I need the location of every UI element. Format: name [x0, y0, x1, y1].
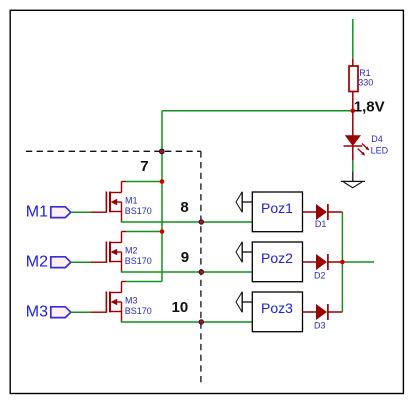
svg-text:BS170: BS170: [125, 256, 152, 266]
svg-text:M3: M3: [26, 304, 48, 321]
diode D2: [303, 254, 343, 280]
svg-text:BS170: BS170: [125, 206, 152, 216]
wire: M3 drain horizontal (green): [122, 281, 163, 283]
svg-text:M2: M2: [125, 245, 138, 255]
transistor M2: [91, 232, 152, 272]
junction dot row 10 on dashed line: [199, 319, 204, 324]
svg-text:Poz2: Poz2: [261, 250, 293, 266]
box Poz2 arrow pin: [236, 242, 252, 262]
box Poz2: [252, 242, 302, 282]
transistor M3: [91, 282, 152, 322]
junction dot row 8 on dashed line: [199, 219, 204, 224]
svg-text:M2: M2: [26, 254, 48, 271]
LED D4: [344, 134, 389, 155]
dashed region vertical line: [200, 151, 202, 383]
svg-text:330: 330: [358, 77, 373, 87]
wire: supply rail vertical (green): [161, 111, 163, 282]
box Poz1: [252, 192, 302, 232]
wire: LED anode lead (red): [352, 111, 354, 136]
transistor M1: [91, 182, 152, 222]
svg-text:M1: M1: [26, 204, 48, 221]
svg-text:M1: M1: [125, 195, 138, 205]
junction dot M2 drain: [160, 229, 165, 234]
svg-text:M3: M3: [125, 295, 138, 305]
ground: [341, 181, 365, 187]
wire: resistor bottom lead (red): [352, 92, 354, 112]
svg-text:D2: D2: [314, 270, 326, 280]
svg-text:D4: D4: [371, 134, 383, 144]
junction dot diode bus: [340, 260, 345, 265]
svg-text:Poz3: Poz3: [261, 300, 293, 316]
wire: LED cathode lead (red): [352, 146, 354, 161]
svg-text:Poz1: Poz1: [261, 200, 293, 216]
junction dot at 1,8V node: [351, 108, 356, 113]
wire: cathode to ground (green): [352, 161, 354, 172]
wire: row 8 (green): [122, 221, 253, 223]
wire: ground stub (black): [352, 171, 354, 181]
wire: row 9 (green): [122, 271, 253, 273]
box Poz1 arrow pin: [236, 192, 252, 213]
port M3: [26, 304, 71, 321]
wire: 1.8V horizontal (green): [162, 110, 353, 112]
wire: port M2 to gate (green): [71, 261, 91, 263]
wire: M2 drain horizontal (green): [122, 231, 163, 233]
svg-text:LED: LED: [371, 146, 389, 156]
box Poz3 arrow pin: [236, 292, 252, 313]
svg-text:D1: D1: [315, 219, 327, 229]
dashed region horizontal line: [26, 150, 201, 152]
diode D1: [303, 204, 343, 229]
svg-text:D3: D3: [314, 321, 326, 331]
junction dot row 9 on dashed line: [199, 269, 204, 274]
svg-text:1,8V: 1,8V: [354, 98, 385, 115]
wire: output stub (green): [342, 261, 374, 263]
svg-text:9: 9: [181, 249, 189, 266]
wire: diode bus vertical (green): [341, 212, 343, 312]
wire: port M1 to gate (green): [71, 211, 91, 213]
wire: row 10 (green): [122, 321, 253, 323]
svg-text:8: 8: [180, 199, 188, 216]
wire: resistor top lead (red): [352, 59, 354, 67]
port M1: [26, 204, 71, 221]
diode D3: [303, 304, 343, 331]
svg-text:7: 7: [140, 158, 148, 175]
svg-text:BS170: BS170: [125, 306, 152, 316]
port M2: [26, 254, 71, 271]
box Poz3: [252, 292, 302, 332]
wire: M1 drain horizontal (green): [122, 181, 163, 183]
junction dot M1 drain: [160, 179, 165, 184]
svg-text:10: 10: [172, 299, 189, 316]
wire: top supply vertical (green): [352, 19, 354, 59]
node 7 junction dot on dashed line: [159, 149, 165, 155]
resistor R1: [349, 66, 373, 92]
wire: port M3 to gate (green): [71, 311, 91, 313]
